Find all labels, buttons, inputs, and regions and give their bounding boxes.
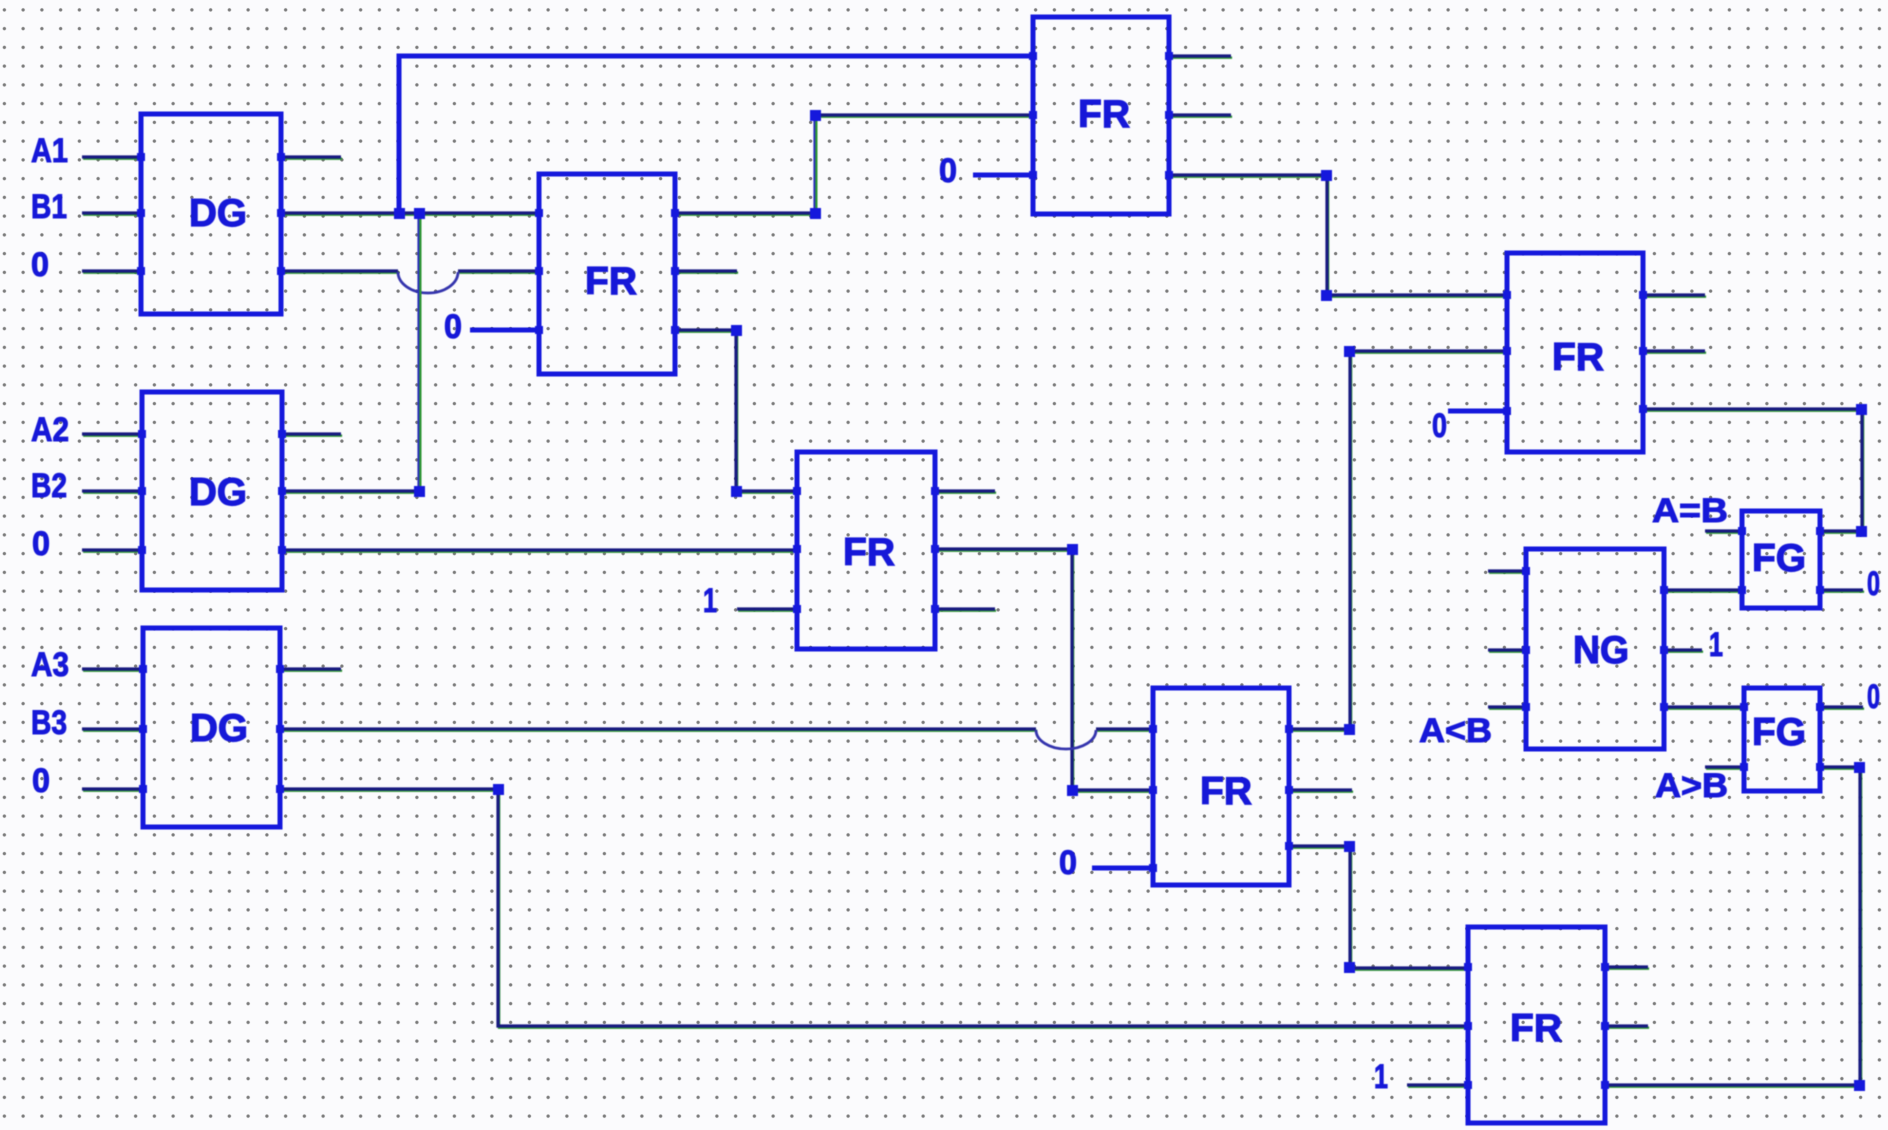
svg-text:A<B: A<B <box>1419 712 1492 750</box>
svg-text:A2: A2 <box>31 411 69 449</box>
svg-text:1: 1 <box>1374 1058 1388 1096</box>
svg-text:0: 0 <box>444 308 462 346</box>
svg-text:0: 0 <box>939 152 957 190</box>
svg-text:0: 0 <box>32 762 50 800</box>
svg-text:FR: FR <box>1552 336 1604 379</box>
svg-text:1: 1 <box>703 582 717 620</box>
svg-text:A=B: A=B <box>1652 492 1728 530</box>
svg-text:FR: FR <box>585 260 637 303</box>
svg-text:B2: B2 <box>31 467 67 505</box>
svg-text:DG: DG <box>190 707 248 750</box>
svg-text:DG: DG <box>189 192 247 235</box>
svg-text:DG: DG <box>189 471 247 514</box>
svg-text:FR: FR <box>1078 93 1130 136</box>
svg-text:FG: FG <box>1752 711 1806 754</box>
svg-text:1: 1 <box>1709 626 1723 664</box>
svg-text:FR: FR <box>1510 1007 1562 1050</box>
svg-text:FR: FR <box>1200 770 1252 813</box>
svg-text:A1: A1 <box>31 132 68 170</box>
svg-text:B1: B1 <box>31 188 67 226</box>
svg-text:0: 0 <box>1867 678 1880 716</box>
svg-text:0: 0 <box>31 246 49 284</box>
svg-text:0: 0 <box>1867 565 1880 603</box>
svg-text:0: 0 <box>1059 844 1077 882</box>
svg-text:0: 0 <box>32 525 50 563</box>
svg-text:A3: A3 <box>31 646 69 684</box>
svg-text:NG: NG <box>1573 629 1629 672</box>
svg-text:0: 0 <box>1432 407 1447 445</box>
svg-text:FG: FG <box>1752 537 1806 580</box>
svg-text:B3: B3 <box>31 704 67 742</box>
svg-text:A>B: A>B <box>1655 767 1728 805</box>
svg-text:FR: FR <box>843 531 895 574</box>
